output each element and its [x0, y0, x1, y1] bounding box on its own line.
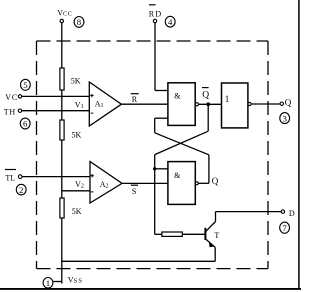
- svg-text:R: R: [132, 95, 138, 104]
- svg-text:&: &: [174, 171, 181, 180]
- svg-text:5K: 5K: [71, 77, 81, 86]
- svg-text:7: 7: [282, 223, 287, 233]
- svg-text:5: 5: [23, 80, 28, 90]
- svg-text:8: 8: [77, 17, 82, 27]
- svg-text:VC: VC: [5, 93, 18, 102]
- svg-text:Q: Q: [285, 98, 292, 108]
- svg-text:Q: Q: [202, 90, 209, 100]
- svg-text:6: 6: [23, 119, 28, 129]
- svg-text:T: T: [214, 231, 219, 240]
- svg-text:2: 2: [19, 185, 23, 195]
- svg-text:Q: Q: [212, 176, 219, 186]
- svg-text:1: 1: [46, 278, 50, 288]
- svg-text:RD: RD: [149, 10, 162, 19]
- svg-text:5K: 5K: [72, 207, 82, 216]
- svg-text:4: 4: [168, 17, 173, 27]
- svg-text:3: 3: [282, 113, 287, 123]
- svg-text:D: D: [289, 209, 295, 218]
- svg-text:VCC: VCC: [57, 8, 72, 17]
- svg-text:TL: TL: [5, 174, 15, 183]
- svg-text:&: &: [174, 92, 181, 101]
- svg-text:S: S: [132, 187, 136, 196]
- svg-text:TH: TH: [4, 107, 16, 116]
- svg-text:5K: 5K: [72, 131, 82, 140]
- svg-text:VSS: VSS: [68, 275, 83, 284]
- svg-text:1: 1: [225, 94, 230, 104]
